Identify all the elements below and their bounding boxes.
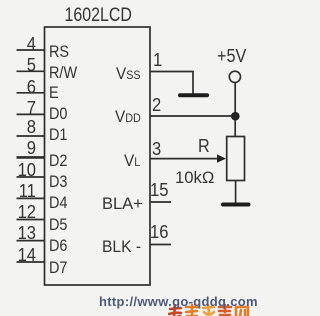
ground bar (resistor) [223, 203, 249, 207]
pin label D1 [49, 125, 67, 145]
watermark logo (orange glyph marks, clipped at bottom) [168, 304, 252, 316]
wiper arrowhead [217, 154, 226, 162]
pin 15 lead [150, 201, 171, 203]
pin number 12 [8, 202, 36, 223]
pin label BLA+ [102, 194, 143, 214]
pin 16 lead [150, 244, 171, 246]
pin number 13 [8, 223, 36, 244]
pin label D4 [49, 193, 67, 213]
pin number 5 [8, 55, 36, 76]
pin 8 lead [17, 135, 45, 137]
junction node dot [231, 112, 240, 121]
pin number 6 [8, 77, 36, 98]
pin label D0 [49, 104, 67, 124]
pin 3 wire to potentiometer wiper [150, 158, 218, 160]
pin number 11 [8, 181, 36, 202]
wire resistor to ground [235, 181, 237, 204]
pin number 8 [8, 117, 36, 138]
+5V supply label [217, 46, 246, 67]
pin label D6 [49, 236, 67, 256]
pin 1 wire to ground [150, 72, 193, 94]
pin number 9 [8, 138, 36, 159]
pin number 14 [8, 245, 36, 266]
pin label D3 [49, 172, 67, 192]
resistor value 10k ohm [175, 168, 214, 188]
ground bar (pin 1) [180, 93, 207, 97]
watermark url [99, 294, 258, 309]
resistor ref R [198, 136, 210, 157]
pin 5 lead [17, 70, 45, 72]
pin label RS [49, 42, 69, 62]
pin 11 lead [17, 197, 45, 199]
pin label VDD [115, 107, 141, 127]
pin label Vss [116, 64, 141, 84]
pin 12 lead [17, 219, 45, 221]
pin label E [49, 83, 59, 103]
pin 13 lead [17, 240, 45, 242]
pin number 16 [150, 222, 168, 243]
pin 9 lead [17, 156, 45, 159]
pin 2 wire to +5V node [150, 115, 233, 117]
title 1602LCD [64, 5, 121, 27]
pin number 3 [152, 139, 161, 160]
pin 10 lead [17, 176, 45, 178]
pin 4 lead [17, 49, 45, 51]
resistor R body [227, 137, 245, 181]
pin 6 lead [17, 92, 45, 94]
pin label D5 [49, 215, 67, 235]
pin number 4 [8, 34, 36, 55]
pin label VL [124, 151, 140, 171]
pin number 1 [153, 50, 162, 71]
IC outline U1 1602LCD [45, 27, 151, 285]
pin label R/W [49, 63, 77, 83]
pin label D2 [49, 151, 67, 171]
pin 7 lead [17, 113, 45, 115]
+5V terminal circle [229, 71, 240, 82]
pin label D7 [49, 258, 67, 278]
pin number 7 [8, 98, 36, 119]
pin label BLK- [102, 237, 141, 257]
pin number 2 [152, 95, 161, 116]
pin number 15 [150, 180, 168, 201]
pin 14 lead [17, 261, 45, 263]
pin number 10 [8, 160, 36, 181]
wire +5V to resistor [234, 83, 236, 137]
